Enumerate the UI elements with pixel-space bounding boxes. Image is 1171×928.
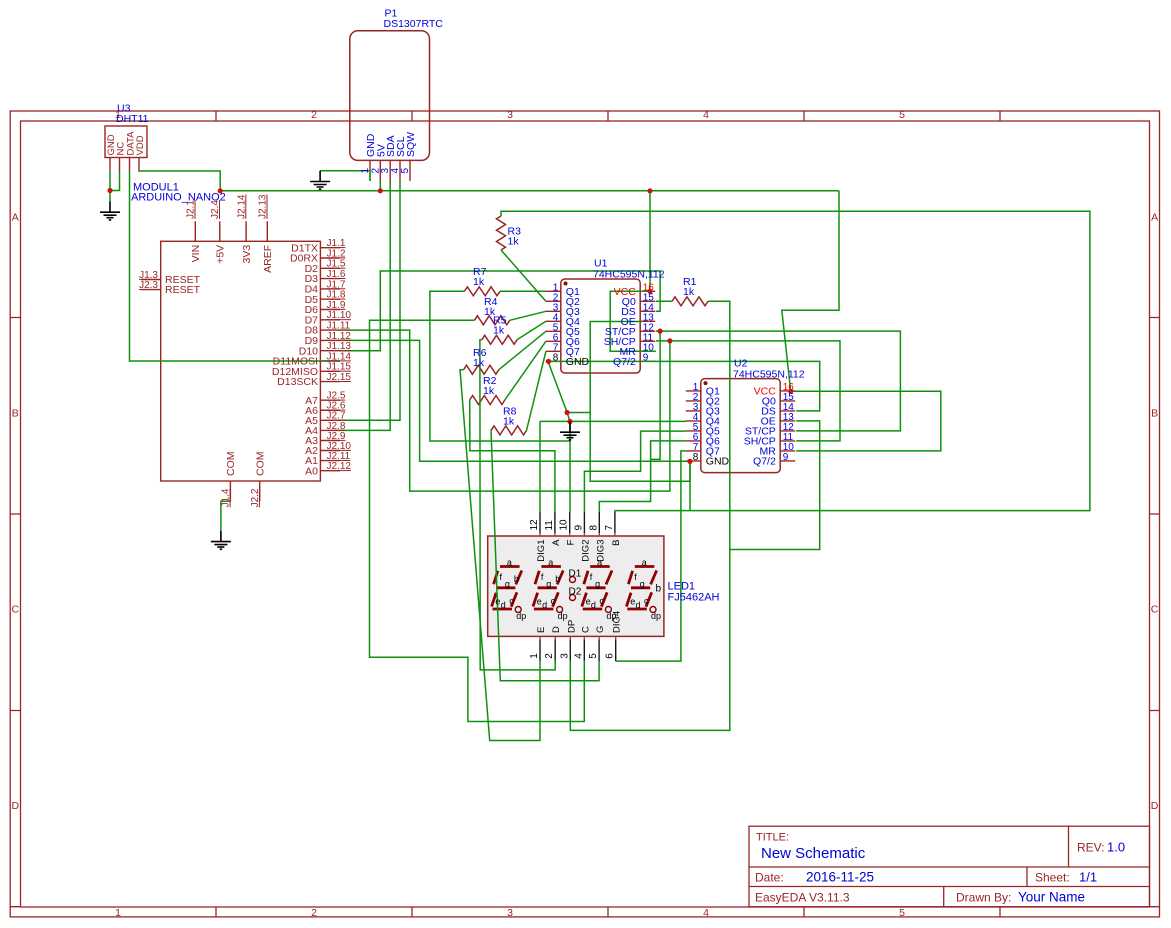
wire U1 SH/CP to U2 SH/CP bbox=[656, 341, 840, 441]
wire R7 right to U1 Q1 bbox=[500, 290, 546, 292]
wire R1 right to LED pin3 DP bbox=[570, 301, 730, 730]
U2 pin stubs bbox=[686, 391, 795, 461]
svg-text:F: F bbox=[566, 539, 577, 545]
LED1 digit 2 dp bbox=[557, 607, 563, 613]
svg-text:3V3: 3V3 bbox=[241, 245, 253, 264]
svg-text:dp: dp bbox=[651, 611, 661, 621]
svg-text:74HC595N,112: 74HC595N,112 bbox=[733, 369, 805, 381]
svg-text:J2.4: J2.4 bbox=[210, 200, 221, 219]
wire D10 to U1 DS bbox=[340, 271, 661, 351]
ground below DHT11 bbox=[100, 202, 120, 220]
svg-text:1: 1 bbox=[529, 653, 540, 659]
wire U1 Q0 to R1 bbox=[656, 300, 672, 302]
LED1 digit 3 dp bbox=[605, 607, 611, 613]
svg-text:dp: dp bbox=[516, 611, 526, 621]
wire GND net to LED pin12 DIG1 and U2 Q4 bbox=[540, 421, 686, 512]
wire R4 right diagonal to U1 Q3 bbox=[510, 311, 546, 320]
wire R2 right diagonal to U1 Q6 bbox=[505, 341, 546, 400]
svg-text:1/1: 1/1 bbox=[1079, 870, 1097, 885]
junction DHT11 GND bbox=[107, 188, 112, 193]
svg-text:COM: COM bbox=[255, 452, 267, 477]
wire U2 Q5 to LED pin9 DIG2 bbox=[584, 431, 685, 512]
svg-text:3: 3 bbox=[507, 907, 513, 919]
resistor R2 bbox=[470, 396, 505, 405]
svg-text:c: c bbox=[551, 596, 556, 606]
wire U2 Q7 to LED pin6 DIG4 bbox=[616, 451, 686, 661]
svg-text:b: b bbox=[656, 584, 662, 595]
LED1 digit 1 dp bbox=[515, 607, 521, 613]
svg-text:10: 10 bbox=[559, 519, 570, 531]
LED1 digit 3 segments bbox=[582, 567, 612, 610]
display LED1 background bbox=[488, 536, 664, 636]
module MODUL1 ARDUINO_NANO2 body bbox=[161, 241, 321, 481]
svg-text:DIG2: DIG2 bbox=[580, 540, 591, 562]
svg-text:D: D bbox=[551, 626, 562, 633]
svg-text:GND: GND bbox=[706, 456, 730, 468]
svg-text:9: 9 bbox=[573, 525, 584, 531]
LED1 colon D1 circle bbox=[570, 577, 576, 583]
wire ground to LED pin10 vertical bbox=[569, 422, 571, 513]
junction VDD bus bbox=[218, 188, 223, 193]
LED1 digit 1 segments bbox=[492, 567, 522, 610]
svg-text:D13SCK: D13SCK bbox=[277, 376, 318, 388]
svg-text:+5V: +5V bbox=[215, 245, 227, 264]
resistor R8 bbox=[491, 426, 527, 435]
junction U1 ST/CP bbox=[658, 329, 663, 334]
svg-text:3: 3 bbox=[559, 653, 570, 659]
shift register U1 body bbox=[561, 279, 640, 373]
sensor U3 DHT11 body bbox=[105, 126, 147, 158]
svg-text:J1.4: J1.4 bbox=[221, 488, 232, 507]
svg-text:A: A bbox=[12, 212, 19, 224]
svg-text:1k: 1k bbox=[683, 286, 695, 298]
svg-text:d: d bbox=[542, 600, 547, 610]
wire DHT11 NC to junction bbox=[110, 171, 120, 191]
svg-text:1k: 1k bbox=[473, 357, 485, 369]
junction ground lower bbox=[567, 419, 572, 424]
U2 pin1 indicator bbox=[704, 381, 708, 385]
svg-text:J2.2: J2.2 bbox=[250, 488, 261, 507]
svg-text:J2.15: J2.15 bbox=[327, 372, 352, 383]
svg-text:C: C bbox=[580, 626, 591, 633]
wire P1 SCL to A5 bbox=[340, 181, 401, 420]
junction U2 GND bbox=[687, 459, 692, 464]
svg-text:e: e bbox=[586, 597, 591, 607]
svg-text:1k: 1k bbox=[483, 385, 495, 397]
wire P1 GND to ground bbox=[320, 171, 370, 181]
junction U2 VCC bbox=[788, 389, 793, 394]
svg-text:5: 5 bbox=[588, 653, 599, 659]
wire DHT11 GND pin down bbox=[109, 171, 111, 202]
svg-text:g: g bbox=[546, 579, 551, 589]
U3 pins bbox=[110, 158, 139, 172]
svg-text:Sheet:: Sheet: bbox=[1035, 871, 1070, 885]
svg-text:4: 4 bbox=[703, 109, 709, 121]
junction U1 VCC bbox=[647, 289, 652, 294]
svg-text:REV:: REV: bbox=[1077, 841, 1105, 855]
svg-text:g: g bbox=[505, 579, 510, 589]
svg-text:8: 8 bbox=[693, 452, 699, 463]
resistor R5 bbox=[482, 335, 517, 344]
svg-text:a: a bbox=[548, 557, 553, 567]
resistor R4 bbox=[475, 316, 510, 325]
svg-text:C: C bbox=[12, 604, 20, 616]
svg-text:J2.12: J2.12 bbox=[327, 461, 352, 472]
junction U1 SH/CP bbox=[667, 338, 672, 343]
svg-text:6: 6 bbox=[605, 653, 616, 659]
svg-text:c: c bbox=[599, 596, 604, 606]
wire R3 top B loop to LED pin7 bbox=[501, 211, 1090, 512]
svg-text:E: E bbox=[536, 627, 547, 633]
svg-text:1: 1 bbox=[115, 907, 121, 919]
svg-text:EasyEDA V3.11.3: EasyEDA V3.11.3 bbox=[755, 891, 850, 905]
svg-text:1k: 1k bbox=[503, 416, 515, 428]
svg-text:New Schematic: New Schematic bbox=[761, 845, 866, 862]
resistor R3 bbox=[497, 216, 506, 250]
svg-text:RESET: RESET bbox=[165, 284, 201, 296]
svg-text:9: 9 bbox=[783, 452, 789, 463]
MODUL1 pin stubs bbox=[141, 221, 340, 501]
svg-text:DHT11: DHT11 bbox=[116, 113, 149, 125]
svg-text:g: g bbox=[640, 579, 645, 589]
svg-text:VDD: VDD bbox=[135, 135, 146, 155]
svg-text:5: 5 bbox=[899, 109, 905, 121]
wire R6 left to LED pin1 E bbox=[460, 370, 540, 741]
svg-text:7: 7 bbox=[604, 525, 615, 531]
svg-text:1k: 1k bbox=[508, 236, 520, 248]
wire R2 left to LED pin11 A bbox=[470, 400, 555, 512]
svg-text:74HC595N,112: 74HC595N,112 bbox=[593, 269, 665, 281]
ground below COM bbox=[211, 531, 231, 549]
svg-text:J2.3: J2.3 bbox=[139, 280, 158, 291]
wire U1 ST/CP to U2 ST/CP bbox=[656, 331, 901, 431]
svg-text:DP: DP bbox=[566, 620, 577, 633]
svg-text:d: d bbox=[501, 600, 506, 610]
svg-text:8: 8 bbox=[588, 525, 599, 531]
svg-text:b: b bbox=[514, 574, 519, 584]
wire DHT11 DATA to D11MOSI bbox=[130, 171, 341, 361]
LED1 digit 4 dp bbox=[650, 607, 656, 613]
wire P1 5V to bus bbox=[379, 181, 381, 191]
svg-text:DIG1: DIG1 bbox=[536, 540, 547, 562]
svg-text:D2: D2 bbox=[569, 587, 582, 598]
wire R8 left to LED pin5 G bbox=[491, 430, 599, 680]
svg-text:2: 2 bbox=[311, 907, 317, 919]
wire R3 bottom diagonal to U1 Q2 bbox=[501, 250, 546, 301]
svg-text:5: 5 bbox=[400, 168, 411, 174]
svg-text:Your Name: Your Name bbox=[1018, 890, 1085, 905]
svg-text:a: a bbox=[597, 557, 602, 567]
display LED1 border bbox=[488, 536, 664, 636]
svg-text:2: 2 bbox=[544, 653, 555, 659]
wire U2 OE loop to R1 vertical bbox=[730, 421, 820, 550]
svg-text:a: a bbox=[507, 557, 512, 567]
svg-text:A: A bbox=[551, 539, 562, 546]
svg-text:2016-11-25: 2016-11-25 bbox=[806, 870, 874, 885]
svg-text:J2.14: J2.14 bbox=[236, 194, 247, 219]
wire U2 VCC to U2 MR bbox=[791, 391, 941, 451]
wire COM to ground bbox=[221, 501, 231, 531]
svg-text:A: A bbox=[1151, 212, 1158, 224]
wire D8 to U1 SH/CP bbox=[340, 330, 670, 491]
svg-text:3: 3 bbox=[507, 109, 513, 121]
wire bus down to U1 VCC bbox=[649, 191, 651, 291]
P1 pins bbox=[370, 160, 410, 181]
LED1 colon D2 circle bbox=[570, 595, 576, 601]
svg-text:5: 5 bbox=[899, 907, 905, 919]
wire D9 to U2 GND bbox=[340, 340, 691, 461]
svg-text:Drawn By:: Drawn By: bbox=[956, 891, 1011, 905]
ground below U1 bbox=[560, 422, 580, 440]
junction P1 5V bus bbox=[378, 188, 383, 193]
svg-text:12: 12 bbox=[529, 519, 540, 531]
wire +5V bus bbox=[220, 190, 839, 192]
wire U2 GND down to B line bbox=[689, 462, 691, 511]
wire bus corner to U2 VCC bbox=[782, 191, 839, 391]
wire R7 left to LED pin10 F bbox=[430, 291, 570, 441]
wire U2 Q6 to LED pin8 DIG3 bbox=[599, 441, 686, 512]
svg-text:SQW: SQW bbox=[405, 132, 417, 157]
resistor R7 bbox=[464, 287, 500, 296]
svg-text:a: a bbox=[642, 557, 647, 567]
svg-text:G: G bbox=[595, 626, 606, 633]
wire R5 left to LED pin2 D bbox=[480, 340, 555, 670]
svg-text:Q7/2: Q7/2 bbox=[613, 356, 636, 368]
svg-text:COM: COM bbox=[225, 452, 237, 477]
svg-text:B: B bbox=[12, 408, 19, 420]
svg-text:J2.13: J2.13 bbox=[258, 194, 269, 219]
wire U1 ST/CP junction down bbox=[651, 331, 661, 459]
LED1 top pin tips bbox=[540, 533, 615, 536]
svg-text:8: 8 bbox=[553, 352, 559, 363]
svg-text:B: B bbox=[611, 540, 622, 546]
svg-text:b: b bbox=[555, 574, 560, 584]
svg-text:B: B bbox=[1151, 408, 1158, 420]
title block outline bbox=[749, 826, 1150, 907]
svg-text:4: 4 bbox=[703, 907, 709, 919]
svg-text:C: C bbox=[1151, 604, 1159, 616]
svg-text:2: 2 bbox=[311, 109, 317, 121]
wire R8 right diagonal to U1 Q7 bbox=[527, 351, 546, 430]
LED1 bottom pin tips bbox=[540, 636, 616, 639]
wire U1 OE down to U2 GND west line bbox=[590, 322, 690, 482]
ground below P1 pin1 bbox=[310, 171, 330, 189]
svg-text:D: D bbox=[1151, 800, 1159, 812]
svg-text:e: e bbox=[495, 597, 500, 607]
junction U1 GND bbox=[546, 359, 551, 364]
wire R4 left to LED pin4 C bbox=[370, 320, 585, 721]
svg-text:D1: D1 bbox=[569, 569, 582, 580]
svg-text:11: 11 bbox=[544, 520, 555, 531]
svg-text:dp: dp bbox=[606, 611, 616, 621]
svg-text:4: 4 bbox=[573, 653, 584, 659]
svg-text:VIN: VIN bbox=[190, 245, 202, 263]
svg-text:Date:: Date: bbox=[755, 871, 784, 885]
resistor R1 bbox=[672, 297, 708, 306]
LED1 digit 4 segments bbox=[626, 567, 656, 610]
wire P1 SDA to A4 bbox=[340, 181, 391, 430]
svg-text:1k: 1k bbox=[473, 276, 485, 288]
wire R6 right diagonal to U1 Q5 bbox=[499, 331, 546, 369]
svg-text:c: c bbox=[509, 596, 514, 606]
connector P1 body bbox=[350, 31, 430, 161]
svg-text:GND: GND bbox=[566, 356, 590, 368]
wire ground junction east bbox=[567, 412, 590, 414]
svg-text:e: e bbox=[630, 597, 635, 607]
shift register U2 body bbox=[701, 379, 780, 473]
svg-text:FJ5462AH: FJ5462AH bbox=[668, 592, 720, 604]
svg-text:c: c bbox=[644, 596, 649, 606]
svg-text:e: e bbox=[537, 597, 542, 607]
svg-text:1k: 1k bbox=[493, 325, 505, 337]
svg-text:g: g bbox=[595, 579, 600, 589]
junction ground upper bbox=[565, 410, 570, 415]
svg-text:TITLE:: TITLE: bbox=[756, 832, 789, 844]
wire DHT11 VDD to 5V bus bbox=[139, 171, 220, 191]
U1 pin1 indicator bbox=[564, 282, 568, 286]
wire U1 GND diagonal to ground bbox=[548, 361, 570, 421]
wire R5 right diagonal to U1 Q4 bbox=[517, 321, 546, 340]
svg-text:d: d bbox=[591, 600, 596, 610]
resistor R6 bbox=[464, 365, 499, 374]
junction bus to U1 VCC bbox=[647, 188, 652, 193]
LED1 digit 2 segments bbox=[533, 567, 563, 610]
svg-text:d: d bbox=[636, 600, 641, 610]
svg-text:9: 9 bbox=[643, 352, 649, 363]
svg-text:AREF: AREF bbox=[262, 245, 274, 273]
svg-text:D: D bbox=[12, 800, 20, 812]
svg-text:dp: dp bbox=[558, 611, 568, 621]
wire U1 GND row to U2 DS bbox=[548, 361, 820, 411]
svg-text:Q7/2: Q7/2 bbox=[753, 456, 776, 468]
svg-text:A0: A0 bbox=[305, 465, 318, 477]
wire U1 VCC to MR bbox=[610, 291, 656, 351]
svg-text:1.0: 1.0 bbox=[1107, 840, 1125, 855]
LED1 bottom pin stubs bbox=[540, 639, 616, 661]
svg-text:J2.1: J2.1 bbox=[186, 200, 197, 219]
svg-text:DS1307RTC: DS1307RTC bbox=[384, 18, 444, 30]
LED1 top pin stubs bbox=[540, 512, 615, 534]
U1 pin stubs bbox=[546, 291, 655, 361]
